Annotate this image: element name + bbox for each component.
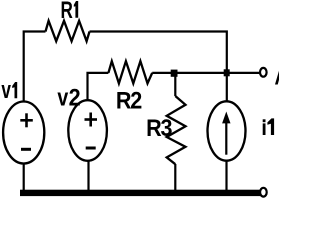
- svg-text:R: R: [61, 0, 73, 24]
- svg-text:2: 2: [130, 86, 142, 113]
- svg-text:2: 2: [69, 83, 81, 110]
- svg-text:A: A: [275, 62, 280, 90]
- svg-text:3: 3: [161, 114, 173, 141]
- svg-text:v: v: [1, 77, 11, 103]
- svg-text:v: v: [57, 83, 69, 110]
